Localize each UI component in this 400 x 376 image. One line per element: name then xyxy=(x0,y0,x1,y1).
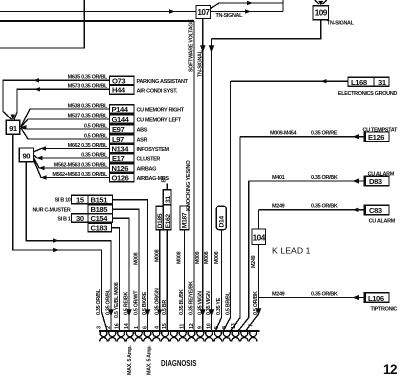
svg-text:H44: H44 xyxy=(112,86,126,95)
connector box B151 xyxy=(88,195,113,204)
wire N126 row xyxy=(34,158,110,169)
wire pin2 net from box 90 xyxy=(26,162,111,331)
svg-text:1: 1 xyxy=(134,326,140,329)
svg-text:0.35 RE/YE/BK: 0.35 RE/YE/BK xyxy=(189,281,195,315)
splice box M187 xyxy=(180,206,189,230)
connector box P144 xyxy=(110,105,135,114)
svg-text:16: 16 xyxy=(114,323,120,329)
wire pin1 net from B185 xyxy=(113,209,140,330)
wire pin4 net below D185 xyxy=(159,230,161,331)
svg-text:M008: M008 xyxy=(134,252,140,265)
wire pin13b net drop from D83 row xyxy=(239,181,249,331)
connector box 104 xyxy=(252,229,266,245)
svg-text:E126: E126 xyxy=(368,133,384,142)
svg-text:INFOSYSTEM: INFOSYSTEM xyxy=(137,147,170,153)
wire V feed arrows into 109 top xyxy=(315,0,328,4)
svg-text:L97: L97 xyxy=(112,135,124,144)
arrow right on pin2 feed xyxy=(53,238,59,242)
connector box B185 xyxy=(88,205,113,214)
arrow left on D83 row xyxy=(353,178,360,183)
svg-text:4: 4 xyxy=(155,326,161,329)
connector box D83 xyxy=(364,176,389,186)
arrow left on O73 row xyxy=(33,78,39,82)
svg-text:M635 0.35 OR/BL: M635 0.35 OR/BL xyxy=(68,75,108,81)
svg-text:TN-SIGNAL: TN-SIGNAL xyxy=(327,21,355,27)
wire pin6 net from B151 xyxy=(113,200,148,331)
svg-text:CU ALARM: CU ALARM xyxy=(369,219,396,225)
wire pin 13 net drop from E126 row xyxy=(231,137,240,331)
arrow down on pin9 wire xyxy=(200,309,206,316)
svg-text:0.35 OR/BL: 0.35 OR/BL xyxy=(96,288,102,315)
connector box O126 xyxy=(110,173,135,182)
arrow on N126 row xyxy=(39,166,45,170)
wire stub above 31 box xyxy=(166,184,168,190)
arrow on O126 row xyxy=(41,175,47,179)
svg-text:104: 104 xyxy=(253,234,266,243)
svg-text:C83: C83 xyxy=(369,206,382,215)
svg-text:D14: D14 xyxy=(219,216,226,228)
svg-text:0.35 OR/BL: 0.35 OR/BL xyxy=(81,152,108,158)
wire E126 row xyxy=(240,136,364,138)
connector box H44 xyxy=(110,85,135,94)
wire L106 tiptronic row xyxy=(259,297,365,299)
svg-text:M008: M008 xyxy=(154,249,160,262)
arrow into box 91 right xyxy=(21,125,27,129)
wire O126 row xyxy=(34,160,110,178)
svg-text:15: 15 xyxy=(76,195,85,204)
svg-text:0.35 OR/BK: 0.35 OR/BK xyxy=(311,175,338,181)
svg-text:ASR: ASR xyxy=(137,138,148,144)
arrow left on E126 row xyxy=(353,134,360,139)
connector box N126 xyxy=(110,164,135,173)
wire K lead vertical into box 104 xyxy=(258,210,260,229)
diagnosis connector bar xyxy=(99,330,260,332)
connector box E17 xyxy=(110,154,135,163)
svg-text:91: 91 xyxy=(9,124,18,133)
svg-text:M662 0.35 OR/BL: M662 0.35 OR/BL xyxy=(68,143,108,149)
splice box D185 xyxy=(156,206,163,229)
svg-text:SI B 1: SI B 1 xyxy=(57,216,70,222)
wire H44 row xyxy=(14,89,110,119)
diagnosis connector mating arcs xyxy=(100,338,257,342)
splice box E162 xyxy=(163,205,171,230)
svg-text:0.5 YE/BL M008: 0.5 YE/BL M008 xyxy=(114,282,120,318)
svg-text:30: 30 xyxy=(76,214,84,223)
wire P144 row xyxy=(21,109,110,127)
arrow down into box 91 xyxy=(11,115,16,120)
svg-text:M009: M009 xyxy=(195,251,201,264)
svg-text:0.5 OR/WT: 0.5 OR/WT xyxy=(134,290,140,315)
svg-text:AIR CONDI SYST.: AIR CONDI SYST. xyxy=(137,88,178,94)
wire branch from 107 right xyxy=(211,11,284,13)
wire pin11 net below M187 xyxy=(184,230,186,331)
arrow down on pin10 drop xyxy=(209,45,215,52)
arrow on E17 row xyxy=(37,156,43,160)
svg-text:O73: O73 xyxy=(112,76,125,85)
wire N134 row xyxy=(34,149,110,153)
svg-text:ABS: ABS xyxy=(137,128,148,134)
connector box L97 xyxy=(110,135,135,144)
wire L97 row xyxy=(21,128,110,139)
svg-text:NUR C-MUSTER: NUR C-MUSTER xyxy=(32,207,70,213)
arrow on right branch xyxy=(245,9,251,13)
connector box L168 / 31 xyxy=(348,77,389,86)
svg-text:0.5 OR/BL: 0.5 OR/BL xyxy=(84,133,108,139)
connector box N134 xyxy=(110,144,135,153)
svg-text:M249: M249 xyxy=(251,255,257,268)
svg-text:M538 0.35 OR/BL: M538 0.35 OR/BL xyxy=(68,103,108,109)
svg-text:0.35 OR/GN: 0.35 OR/GN xyxy=(154,288,160,315)
svg-text:E17: E17 xyxy=(112,154,124,163)
svg-text:PARKING ASSISTANT: PARKING ASSISTANT xyxy=(137,79,189,85)
svg-text:C183: C183 xyxy=(91,223,108,232)
svg-text:0.35 BL/BK: 0.35 BL/BK xyxy=(179,289,185,315)
svg-text:7: 7 xyxy=(248,324,254,327)
terminal box 31 above E162 xyxy=(163,190,171,205)
wire E17 row xyxy=(34,155,110,158)
svg-text:10: 10 xyxy=(206,323,212,329)
arrow down on pin7 wire xyxy=(256,308,262,315)
connector box 109 xyxy=(313,6,329,20)
svg-text:0.35 OR/BL: 0.35 OR/BL xyxy=(106,288,112,315)
svg-text:15: 15 xyxy=(162,323,168,329)
wire G144 row xyxy=(21,119,110,127)
junction box 91 xyxy=(6,120,19,134)
svg-text:13: 13 xyxy=(231,323,237,329)
wire pin3 net from box 91 xyxy=(13,134,107,330)
wire vertical net stub to page top xyxy=(282,0,284,12)
arrow down on pin9 drop xyxy=(200,45,206,52)
svg-text:12: 12 xyxy=(383,362,397,376)
svg-text:CU MEMORY RIGHT: CU MEMORY RIGHT xyxy=(137,108,185,114)
svg-text:0.5 RE/BK: 0.5 RE/BK xyxy=(124,292,130,315)
svg-text:M537 0.35 OR/BL: M537 0.35 OR/BL xyxy=(68,113,108,119)
svg-text:TN-SIGNAL: TN-SIGNAL xyxy=(198,49,204,77)
wire pin15 net below E162 xyxy=(166,230,168,331)
arrow left on H44 row xyxy=(34,87,40,91)
svg-text:B185: B185 xyxy=(91,205,109,214)
svg-text:0.5 OR/BL: 0.5 OR/BL xyxy=(84,123,108,129)
wire pin5 net below D14 xyxy=(216,230,222,331)
terminal box 15 xyxy=(72,195,89,204)
splice box D14 xyxy=(216,206,226,229)
svg-text:B151: B151 xyxy=(91,195,109,204)
terminal box 30 xyxy=(72,214,89,223)
arrow down on pin6 wire xyxy=(145,309,151,316)
svg-text:12: 12 xyxy=(189,323,195,329)
svg-text:G144: G144 xyxy=(112,115,130,124)
svg-text:5: 5 xyxy=(214,326,220,329)
svg-text:L106: L106 xyxy=(368,294,384,303)
svg-text:M008: M008 xyxy=(214,251,220,264)
svg-text:90: 90 xyxy=(22,151,30,160)
svg-text:SOFTWARE VOLTAGE: SOFTWARE VOLTAGE xyxy=(189,19,195,72)
arrow on N134 row xyxy=(40,146,46,150)
connector box G144 xyxy=(110,115,135,124)
svg-text:M401: M401 xyxy=(272,175,285,181)
arrow right on pin3 feed xyxy=(53,248,59,252)
svg-text:M249: M249 xyxy=(272,291,285,297)
svg-text:0.35 VI/GN: 0.35 VI/GN xyxy=(206,291,212,315)
wire pin16 net from C183 xyxy=(112,228,120,331)
svg-text:107: 107 xyxy=(197,8,210,17)
svg-text:M009-M454: M009-M454 xyxy=(270,131,297,137)
svg-text:KNOCKING YES/NO: KNOCKING YES/NO xyxy=(186,160,192,211)
svg-text:MAX. 5 Amp.: MAX. 5 Amp. xyxy=(127,345,133,375)
svg-text:14: 14 xyxy=(124,323,130,329)
wire C83 row xyxy=(259,209,365,211)
svg-text:0.5 OR/BK: 0.5 OR/BK xyxy=(253,291,259,315)
svg-text:N134: N134 xyxy=(112,144,130,153)
wire from 109 bottom routed left xyxy=(212,20,321,39)
svg-text:C154: C154 xyxy=(91,214,109,223)
arrow left on C83 row xyxy=(353,208,359,212)
arrow down on pin14 wire xyxy=(126,309,132,316)
svg-text:0.35 YE: 0.35 YE xyxy=(216,297,222,315)
svg-text:D83: D83 xyxy=(369,177,382,186)
svg-text:TIPTRONIC: TIPTRONIC xyxy=(371,306,398,312)
connector box O73 xyxy=(110,76,135,85)
svg-text:3: 3 xyxy=(96,326,102,329)
svg-text:0.35 OR/BK: 0.35 OR/BK xyxy=(311,204,338,210)
connector box C183 xyxy=(88,223,112,232)
svg-text:K LEAD 1: K LEAD 1 xyxy=(272,246,311,256)
svg-text:TN-SIGNAL: TN-SIGNAL xyxy=(216,13,244,19)
wire pin 8 net drop from L168 row xyxy=(224,81,231,330)
arrow left on L168 row xyxy=(321,79,327,83)
svg-text:E162: E162 xyxy=(165,214,172,229)
wire L168 electronics ground row xyxy=(231,80,348,82)
wire E97 row xyxy=(21,128,110,130)
svg-text:2: 2 xyxy=(106,326,112,329)
svg-text:M249: M249 xyxy=(272,204,285,210)
svg-text:M573 0.35 OR/BL: M573 0.35 OR/BL xyxy=(68,84,108,90)
svg-text:31: 31 xyxy=(378,78,387,87)
junction box 90 xyxy=(19,148,33,162)
svg-text:31: 31 xyxy=(165,196,172,203)
svg-text:11: 11 xyxy=(179,324,185,329)
svg-text:M187: M187 xyxy=(182,212,189,228)
arrow into U107 xyxy=(169,9,175,14)
connector box C83 xyxy=(364,205,389,215)
svg-text:DIAGNOSIS: DIAGNOSIS xyxy=(161,358,197,368)
svg-text:M562-M563 0.35 OR/BL: M562-M563 0.35 OR/BL xyxy=(54,162,108,168)
connector box L106 xyxy=(364,293,389,303)
svg-text:SI B 10: SI B 10 xyxy=(55,198,71,204)
wire thick bus line to software-voltage drop xyxy=(0,20,194,22)
wire D83 row xyxy=(249,180,365,182)
connector box 107 xyxy=(196,6,211,19)
svg-text:AIRBAG: AIRBAG xyxy=(137,167,157,173)
diagnosis connector socket cups xyxy=(100,332,256,337)
svg-text:ELECTRONICS GROUND: ELECTRONICS GROUND xyxy=(338,91,397,97)
connector box E97 xyxy=(110,125,135,134)
wire corner bus from top edge at x=84 xyxy=(0,0,84,48)
arrow down on pin2 wire xyxy=(108,309,114,316)
svg-text:8: 8 xyxy=(222,326,228,329)
svg-text:L168: L168 xyxy=(351,78,367,87)
svg-text:P144: P144 xyxy=(112,105,129,114)
svg-text:O126: O126 xyxy=(112,173,129,182)
svg-text:0.35 OR/RE: 0.35 OR/RE xyxy=(311,131,338,137)
svg-text:6: 6 xyxy=(142,326,148,329)
svg-text:109: 109 xyxy=(315,8,328,17)
svg-text:M562+M563 0.35 OR/BL: M562+M563 0.35 OR/BL xyxy=(52,172,108,178)
wire branch from 107 top right xyxy=(211,3,284,9)
svg-text:0.5 BR/BL: 0.5 BR/BL xyxy=(226,291,232,315)
svg-text:9: 9 xyxy=(198,326,204,329)
svg-text:0.35 VI/GN: 0.35 VI/GN xyxy=(198,291,204,315)
svg-text:CLUSTER: CLUSTER xyxy=(137,157,161,163)
wire pin14 net from C154 xyxy=(113,218,130,330)
svg-text:M008: M008 xyxy=(204,251,210,264)
svg-text:0.35 OR/BK: 0.35 OR/BK xyxy=(311,291,338,297)
svg-text:N126: N126 xyxy=(112,164,129,173)
svg-text:MAX. 5 Amp.: MAX. 5 Amp. xyxy=(146,345,152,375)
connector box C154 xyxy=(88,214,113,223)
wire software voltage drop (pin 12 net) xyxy=(193,21,195,331)
wire TN-signal drop (pin 10 net) xyxy=(211,39,213,331)
wire 107 bottom drop (pin 9 net) xyxy=(202,19,204,331)
svg-text:0.5 BR: 0.5 BR xyxy=(162,300,168,315)
arrow down on pin4 wire xyxy=(157,310,162,317)
connector box E126 xyxy=(364,132,389,142)
wire top feed line into U107 xyxy=(0,11,196,13)
wire pin 7 net below 104 xyxy=(246,245,259,331)
arrow left on L106 row xyxy=(353,295,360,300)
svg-text:E97: E97 xyxy=(112,125,124,134)
arrow down on pin10 wire xyxy=(209,309,215,316)
svg-text:0.5 BK/RE: 0.5 BK/RE xyxy=(142,291,148,315)
svg-text:CU MEMORY LEFT: CU MEMORY LEFT xyxy=(137,118,182,124)
arrow on top branch xyxy=(247,1,253,5)
wire O73 row xyxy=(3,80,110,119)
svg-text:M008: M008 xyxy=(177,251,183,264)
